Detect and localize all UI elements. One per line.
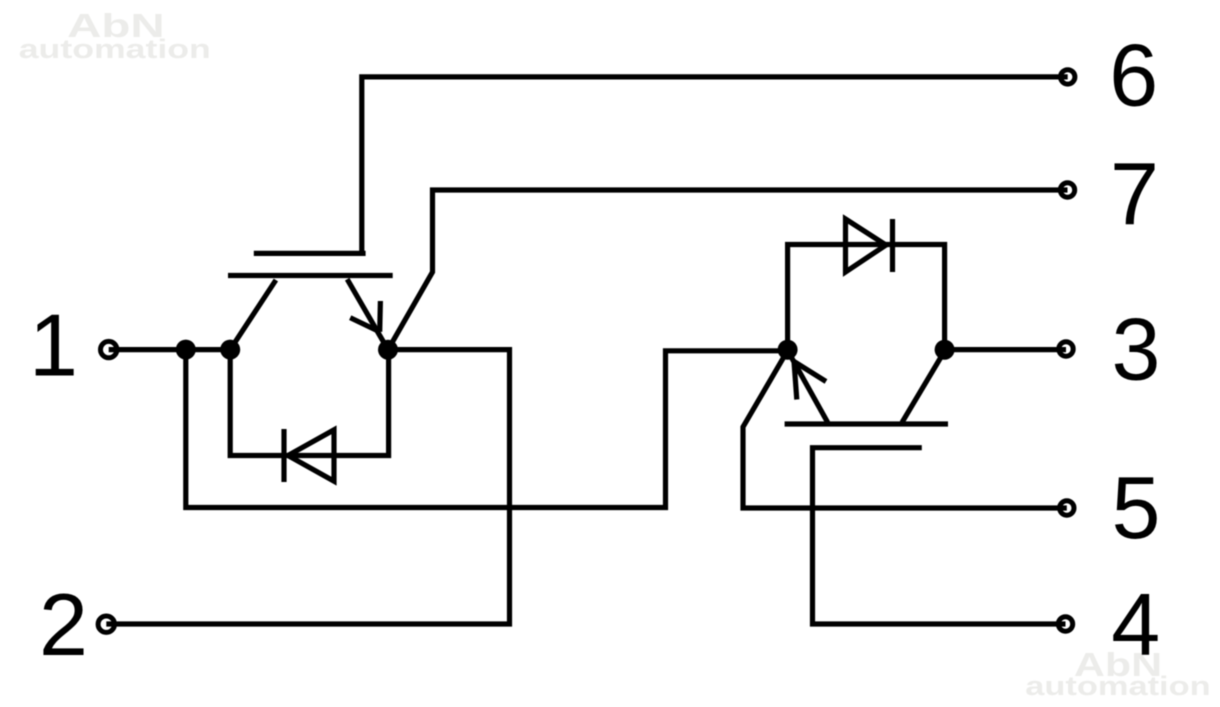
svg-text:7: 7 bbox=[1110, 144, 1159, 243]
svg-text:automation: automation bbox=[19, 33, 211, 64]
svg-text:2: 2 bbox=[39, 575, 88, 674]
svg-text:3: 3 bbox=[1112, 299, 1161, 398]
svg-text:5: 5 bbox=[1112, 458, 1161, 557]
svg-text:4: 4 bbox=[1111, 575, 1160, 674]
svg-text:1: 1 bbox=[29, 296, 78, 395]
svg-text:6: 6 bbox=[1109, 26, 1158, 125]
svg-text:automation: automation bbox=[1025, 671, 1210, 702]
